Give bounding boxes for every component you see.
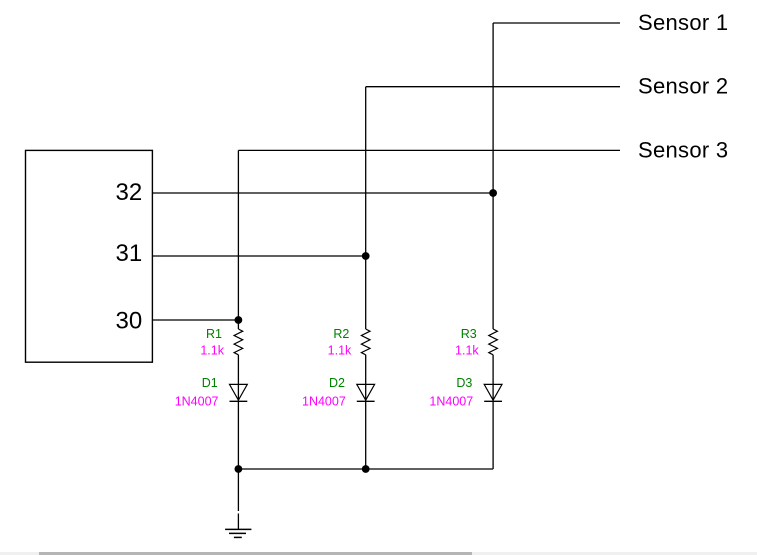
wire ground rail bbox=[238, 468, 493, 470]
svg-text:D3: D3 bbox=[456, 376, 472, 390]
resistor R1 bbox=[234, 329, 243, 355]
svg-text:R1: R1 bbox=[206, 327, 222, 341]
svg-text:Sensor 1: Sensor 1 bbox=[638, 10, 728, 35]
diode D1 bbox=[230, 384, 248, 401]
svg-text:R2: R2 bbox=[333, 327, 349, 341]
svg-text:31: 31 bbox=[116, 240, 143, 267]
wire branch 3 vertical lower bbox=[492, 355, 494, 469]
svg-text:Sensor 3: Sensor 3 bbox=[638, 137, 728, 162]
scrollbar track bbox=[0, 552, 757, 555]
ground symbol bbox=[225, 514, 251, 538]
wire branch 1 vertical upper bbox=[237, 150, 239, 329]
svg-text:R3: R3 bbox=[461, 327, 477, 341]
svg-text:1.1k: 1.1k bbox=[455, 343, 479, 357]
resistor R3 bbox=[489, 329, 498, 355]
wire net Sensor 1 horizontal bbox=[493, 22, 620, 24]
svg-text:1N4007: 1N4007 bbox=[175, 395, 219, 409]
wire branch 2 vertical lower bbox=[365, 355, 367, 469]
svg-text:1.1k: 1.1k bbox=[200, 343, 224, 357]
svg-text:D1: D1 bbox=[202, 376, 218, 390]
wire branch 2 vertical upper bbox=[365, 87, 367, 329]
scrollbar thumb bbox=[39, 552, 472, 555]
junction node rail / branch 1 bbox=[235, 465, 243, 473]
wire from pin 32 bbox=[152, 192, 493, 194]
wire net Sensor 2 horizontal bbox=[366, 86, 620, 88]
resistor R2 bbox=[361, 329, 370, 355]
junction node pin30 / Sensor3 branch bbox=[235, 316, 243, 324]
junction node pin31 / Sensor2 branch bbox=[362, 252, 370, 260]
wire from pin 31 bbox=[152, 255, 365, 257]
diode D2 bbox=[357, 384, 375, 401]
diode D3 bbox=[484, 384, 502, 401]
wire branch 1 vertical lower bbox=[237, 355, 239, 469]
svg-text:1N4007: 1N4007 bbox=[429, 395, 473, 409]
svg-text:32: 32 bbox=[116, 179, 143, 206]
wire net Sensor 3 horizontal bbox=[238, 149, 620, 151]
wire from pin 30 bbox=[152, 319, 238, 321]
svg-text:30: 30 bbox=[116, 307, 143, 334]
junction node pin32 / Sensor1 branch bbox=[489, 189, 497, 197]
svg-text:Sensor 2: Sensor 2 bbox=[638, 74, 728, 99]
svg-text:1.1k: 1.1k bbox=[328, 343, 352, 357]
svg-text:1N4007: 1N4007 bbox=[302, 395, 346, 409]
IC box U1 bbox=[26, 150, 153, 362]
svg-text:D2: D2 bbox=[329, 376, 345, 390]
wire branch 3 vertical upper bbox=[492, 23, 494, 329]
wire to ground bbox=[237, 469, 239, 511]
junction node rail / branch 2 bbox=[362, 465, 370, 473]
